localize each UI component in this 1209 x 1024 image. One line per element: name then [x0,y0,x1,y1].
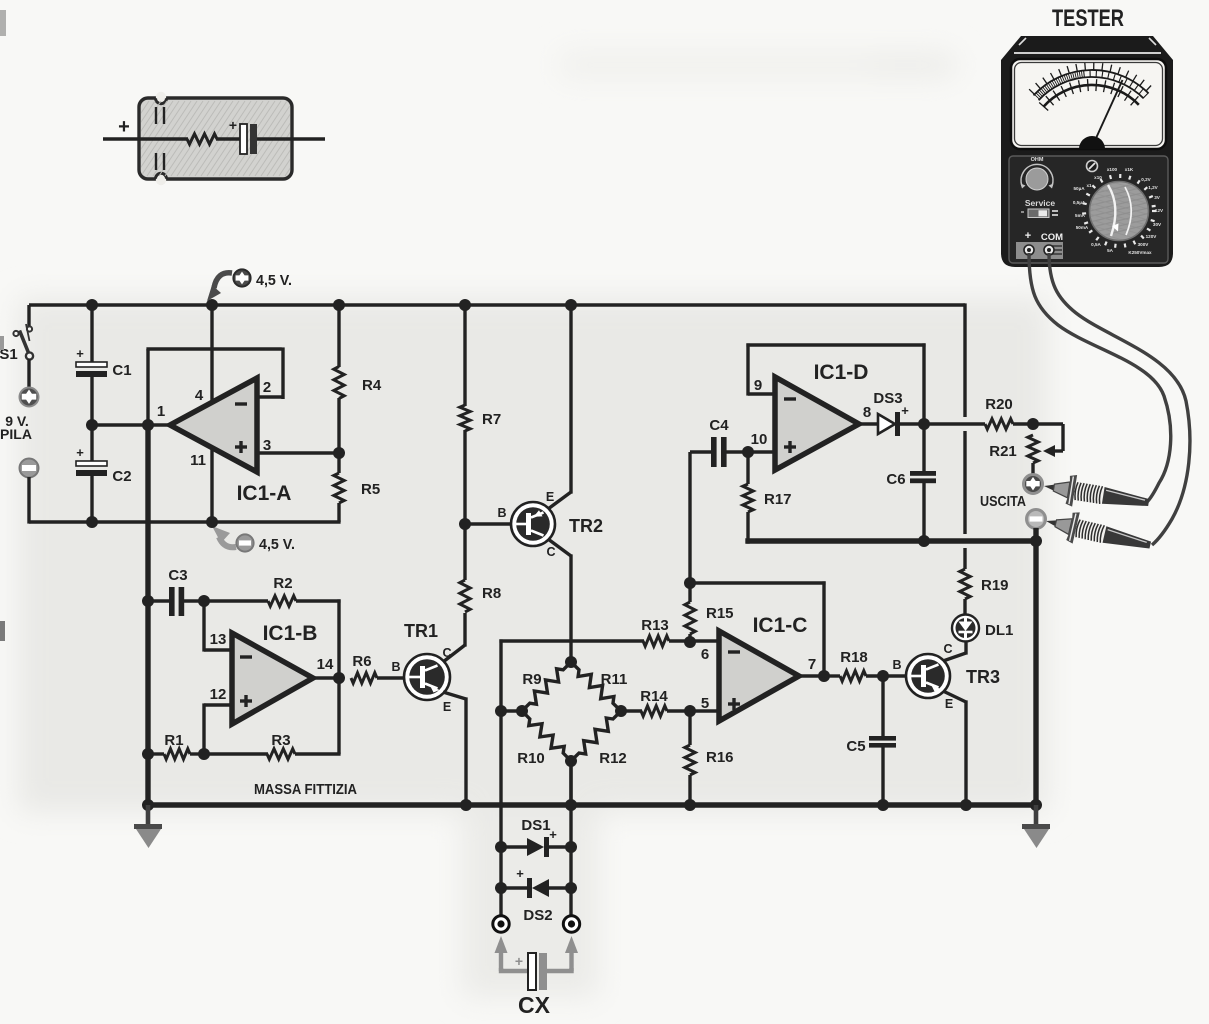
page artifact left edge [0,10,6,641]
svg-text:B: B [497,506,506,520]
wire R19 column below crossing [963,431,966,534]
resistor R5 [334,473,344,503]
pin label 5 [701,695,709,712]
internal capacitor plates [240,124,257,154]
IC1-D minus input symbol [784,397,796,400]
svg-text:9: 9 [754,377,762,394]
pin label 11 [190,452,206,469]
label IC1-A [237,482,292,505]
resistor R18 [840,671,866,681]
svg-text:+: + [76,445,84,460]
node C1-C2 midpoint [86,419,98,431]
label DS3 [873,390,902,407]
arrow to minus rail [212,526,236,547]
wire junction to R15 [688,583,691,602]
svg-text:MASSA FITTIZIA: MASSA FITTIZIA [254,782,357,798]
wire TR1 emitter down [443,692,466,807]
svg-text:R15: R15 [706,605,734,622]
svg-text:7: 7 [808,656,816,673]
node pin6 [684,636,696,648]
wire pin13 stub [204,601,232,652]
svg-text:R13: R13 [641,617,669,634]
svg-text:E: E [945,697,953,711]
label CX [518,992,551,1018]
svg-text:1: 1 [157,403,165,420]
jack panel [1016,242,1063,259]
svg-text:C: C [546,545,555,559]
label TR1 base B [391,660,400,674]
node DS1 right [565,841,577,853]
node R1-R3-pin12 [198,748,210,760]
wire pin10 to R17 [746,452,749,484]
label R4 [362,377,382,394]
internal capacitor plus label [229,117,237,133]
panel screw [1087,161,1098,172]
IC1-C plus input symbol [728,698,740,710]
node power bottom [206,516,218,528]
label CX plus [515,953,523,969]
svg-text:+: + [516,866,524,881]
label minus 4.5V [259,536,295,553]
wire R1 to node [190,752,204,755]
label DS1 plus [549,827,557,842]
capacitor C2 [76,445,107,476]
svg-text:B: B [391,660,400,674]
svg-text:TESTER: TESTER [1052,5,1124,32]
svg-text:x10: x10 [1094,175,1102,180]
svg-text:R19: R19 [981,577,1009,594]
wire R4 to node [337,398,340,453]
wire TR3 collector to DL1 [943,641,966,661]
wire massa to R1 [148,752,164,755]
capacitor CX [528,953,547,990]
label TR2 collector C [546,545,555,559]
transistor TR1 [404,654,450,700]
IC1-D plus input symbol [784,441,796,453]
wire thick output common [745,538,1038,543]
tester lead from COM jack [1049,253,1190,545]
node massa C3 tap [142,595,154,607]
pin label 3 [263,437,271,454]
label DS2 [523,907,552,924]
wire R17 down [746,512,749,544]
label R6 [352,653,371,670]
diode DS1 [501,837,571,857]
svg-text:12: 12 [210,686,227,703]
capacitor C5 [869,736,896,748]
node common at vertical [1030,535,1042,547]
label R20 [985,396,1013,413]
svg-text:x100: x100 [1107,167,1118,172]
label TR2 base B [497,506,506,520]
svg-text:+: + [549,827,557,842]
wire TR3 emitter to rail [943,691,966,807]
svg-text:5: 5 [701,695,709,712]
electrolytic capacitor body (equivalent-circuit symbol) [93,92,425,185]
label R10 [517,750,545,767]
wire R3 to output column [295,678,341,754]
wire top rail right end down [963,303,966,417]
svg-text:USCITA: USCITA [980,493,1026,510]
label TR3 emitter E [945,697,953,711]
resistor R13 [643,636,669,646]
service switch [1021,209,1058,218]
battery minus terminal [20,459,39,478]
svg-text:B: B [892,658,901,672]
label DS2 plus [516,866,524,881]
label C6 [886,471,905,488]
svg-text:PILA: PILA [0,426,32,442]
svg-text:IC1-B: IC1-B [263,622,318,645]
resistor R15 [685,602,695,634]
plus jack label [1025,230,1031,242]
wire IC1-C output [799,674,824,677]
LED DL1 [952,615,979,642]
label R16 [706,749,734,766]
tester lead from plus jack [1029,253,1171,502]
label TR2 [569,516,603,536]
node DS2 left [495,882,507,894]
resistor R9 [522,662,571,711]
svg-text:R2: R2 [273,575,292,592]
internal series resistor (ESR) [187,134,217,144]
wire C5 to rail [881,747,884,807]
switch S1 [13,324,33,360]
node IC1-C output [818,670,830,682]
wire C4 column [688,452,691,583]
node DS1 left [495,841,507,853]
node C6 bottom [918,535,930,547]
node DS2 right [565,882,577,894]
capacitor C1 [76,346,107,377]
label IC1-B [263,622,318,645]
test probe at minus output [1042,505,1153,560]
pin label 8 [863,404,871,421]
wire bridge right to R14 [621,709,642,712]
wire left branch to switch [27,305,30,327]
node bridge top [565,656,577,668]
wire TR2 collector down [548,539,571,662]
tester lower panel [1009,156,1168,263]
resistor R14 [641,706,667,716]
svg-text:R9: R9 [522,671,541,688]
svg-text:2: 2 [263,379,271,396]
resistor R17 [743,484,753,512]
svg-text:11: 11 [190,452,206,469]
label R17 [764,491,792,508]
wire R18 to TR3 base [866,674,906,677]
svg-text:0,2V: 0,2V [1141,177,1151,182]
label S1 [0,346,18,363]
node TR2 emitter rail [565,299,577,311]
transistor TR2 [511,502,555,546]
label TR3 collector C [943,642,952,656]
svg-text:120V: 120V [1146,234,1158,239]
label R12 [599,750,627,767]
wire pin9 stub [748,392,775,395]
wire bridge-left column to DS1 [499,711,502,916]
svg-text:13: 13 [210,631,227,648]
wire R16 to rail [688,775,691,807]
meter pivot [1079,136,1105,149]
svg-text:0,5A: 0,5A [1091,242,1101,247]
resistor R2 [268,596,296,606]
svg-text:C3: C3 [168,567,187,584]
wire top rail to C1 [90,305,93,363]
wire IC1-D output to DS3 [859,422,878,425]
node bridge bottom rail [565,799,577,811]
label R5 [361,481,380,498]
IC1-A minus input symbol [235,402,247,405]
label C1 [112,362,131,379]
svg-text:C1: C1 [112,362,131,379]
capacitor C4 [690,437,748,467]
wire R7 to TR2 base node [463,430,466,524]
svg-text:C6: C6 [886,471,905,488]
svg-text:+: + [901,403,909,418]
wire node to R20 [924,422,985,425]
label TR3 [966,667,1000,687]
IC1-B plus input symbol [240,695,252,707]
node TR1 emitter rail [460,799,472,811]
resistor R12 [571,711,621,761]
svg-text:TR3: TR3 [966,667,1000,687]
pin label 14 [317,656,334,673]
CX connection wire [501,968,572,971]
IC1-C minus input symbol [728,650,740,653]
label TESTER [1052,5,1124,32]
svg-text:3V: 3V [1154,195,1161,200]
resistor R11 [571,662,621,711]
wire R15 to pin6 node [688,634,691,642]
svg-text:TR2: TR2 [569,516,603,536]
node bridge right [615,705,627,717]
svg-text:R10: R10 [517,750,545,767]
label R18 [840,649,868,666]
wire TR2 emitter to top rail [548,305,571,509]
svg-text:R11: R11 [601,671,628,688]
tester chamfer highlight ticks [1019,38,1156,45]
label DL1 [985,622,1013,639]
terminal CX left [493,916,509,932]
svg-text:10: 10 [751,431,768,448]
svg-text:300V: 300V [1138,242,1150,247]
capacitor C6 [910,471,936,483]
label USCITA [980,493,1026,510]
label R9 [522,671,541,688]
wire node to R5 [337,453,340,473]
svg-text:COM: COM [1041,232,1063,243]
meter needle [1092,80,1123,147]
test probe at plus output [1041,470,1151,518]
svg-text:14: 14 [317,656,334,673]
pin label 13 [210,631,227,648]
node rail right corner [1030,799,1042,811]
label TR1 emitter E [443,700,451,714]
label plus 4.5V [256,272,292,289]
node C1 top-rail [86,299,98,311]
label TR3 base B [892,658,901,672]
node rail left corner [142,799,154,811]
wire pin5 to R16 [688,711,691,745]
plus polarity label of capacitor body [118,116,130,138]
wire IC1-C feedback loop [690,581,826,677]
svg-text:6: 6 [701,646,709,663]
diode DS3 [878,412,900,436]
label R11 [601,671,628,688]
wire pin10 stub [748,450,775,453]
node pin3 divider [333,447,345,459]
svg-text:50mA: 50mA [1076,225,1089,230]
svg-text:DL1: DL1 [985,622,1013,639]
svg-text:5A: 5A [1107,248,1114,253]
svg-text:0,5µA: 0,5µA [1073,200,1086,205]
node R4 top [333,299,345,311]
label C5 [846,738,865,755]
svg-text:R5: R5 [361,481,380,498]
label MASSA FITTIZIA [254,782,357,798]
wire DS3 to node [900,422,924,425]
node C4 junction [684,577,696,589]
svg-text:1,2V: 1,2V [1148,185,1158,190]
wire IC1-A feedback pin2 to pin1 [146,347,283,425]
svg-text:R14: R14 [640,688,668,705]
svg-text:CX: CX [518,992,551,1018]
resistor R4 [334,367,344,399]
IC1-A plus input symbol [235,441,247,453]
svg-text:+: + [515,953,523,969]
svg-text:R17: R17 [764,491,792,508]
resistor R7 [460,405,470,431]
COM jack label [1041,232,1063,243]
terminal CX right [563,916,579,932]
plus 4.5V symbol [233,269,250,286]
svg-text:R8: R8 [482,585,501,602]
wire node to R8 [463,524,466,580]
label C2 [112,468,131,485]
tester meter window [1011,59,1166,149]
pin label 4 [195,387,204,404]
svg-text:R16: R16 [706,749,734,766]
svg-text:5mA: 5mA [1075,213,1086,218]
svg-text:TR1: TR1 [404,621,438,641]
label R21 [989,443,1017,460]
svg-text:4,5 V.: 4,5 V. [259,536,295,553]
svg-text:OHM: OHM [1031,157,1044,163]
svg-text:E: E [546,490,554,504]
node bridge left tap [495,705,507,717]
wire R20 to R21 node [1013,422,1033,425]
svg-text:C2: C2 [112,468,131,485]
wire minus terminal to ground rail [1033,528,1038,808]
ohm adjust knob [1021,164,1054,190]
node DS3 output [918,418,930,430]
node C2 bottom-rail [86,516,98,528]
wire bridge left tap [501,709,522,712]
wire IC1 power pins 4-11 [210,305,213,522]
svg-text:4: 4 [195,387,204,404]
svg-text:12V: 12V [1155,208,1164,213]
node C5 rail [877,799,889,811]
wire R19 column below thick wire [963,548,966,569]
node R21 top [1027,418,1039,430]
arrow to top rail [207,273,232,301]
wire C5 column [881,676,884,737]
label DS1 [521,817,550,834]
svg-text:+: + [229,117,237,133]
wire C2 to bottom [90,476,93,522]
pin label 2 [263,379,271,396]
svg-text:R12: R12 [599,750,627,767]
node IC1-B output [333,672,345,684]
svg-text:IC1-D: IC1-D [814,361,869,384]
svg-text:R3: R3 [271,732,290,749]
node pin1 [142,419,154,431]
CX right arrow [565,936,578,971]
wire node to R3 [204,752,268,755]
resistor R10 [522,711,571,761]
svg-text:30V: 30V [1153,222,1162,227]
resistor R1 [164,749,190,759]
label 9V PILA [0,413,32,442]
svg-text:DS3: DS3 [873,390,902,407]
output plus terminal [1024,475,1043,494]
svg-text:R7: R7 [482,411,501,428]
wire pin12 stub [204,703,232,754]
wire through capacitor body [103,137,325,141]
svg-text:R21: R21 [989,443,1017,460]
svg-text:x1K: x1K [1125,167,1134,172]
wire IC1-D feedback box [746,343,925,424]
wire TR2 base [465,522,512,525]
svg-text:8: 8 [863,404,871,421]
wire top rail to R7 [463,305,466,406]
meter upper scale band [1029,63,1151,101]
svg-text:+: + [1025,230,1031,242]
transistor TR3 [906,654,950,698]
svg-text:IC1-A: IC1-A [237,482,292,505]
node power top [206,299,218,311]
CX left arrow [495,936,508,971]
svg-text:DS2: DS2 [523,907,552,924]
svg-text:C: C [943,642,952,656]
wire C3 node to R2 [204,599,268,602]
wire bridge left to R13 row [499,639,644,712]
wire R21 to plus output terminal [1031,463,1034,475]
pin label 12 [210,686,227,703]
wire output pin1 of IC1-A [92,423,172,426]
svg-text:K250Vmax: K250Vmax [1128,250,1152,255]
wire R14 to pin5 node [667,709,690,712]
node massa R1 tap [142,748,154,760]
svg-text:50µA: 50µA [1073,186,1085,191]
svg-text:DS1: DS1 [521,817,550,834]
svg-text:x1: x1 [1086,183,1092,188]
wire IC1-B output [313,676,339,679]
svg-text:4,5 V.: 4,5 V. [256,272,292,289]
svg-text:C4: C4 [709,417,729,434]
label R1 [164,732,183,749]
label R3 [271,732,290,749]
output minus terminal [1027,510,1046,529]
wire battery minus down [29,477,341,524]
wire TR1 collector to R8 [443,613,465,662]
node TR3 emitter rail [960,799,972,811]
resistor R6 [351,673,377,683]
node TR2 base [459,518,471,530]
op-amp IC1-A [170,378,257,472]
svg-text:Service: Service [1025,198,1056,208]
